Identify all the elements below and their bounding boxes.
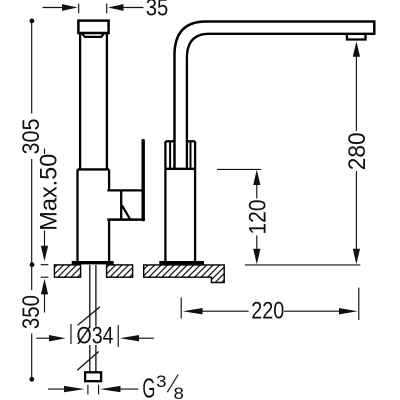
- body step: [78, 168, 110, 170]
- svg-text:120: 120: [244, 200, 271, 235]
- svg-text:G: G: [142, 372, 155, 400]
- spout aerator: [347, 34, 366, 40]
- G3/8 connector: [85, 372, 101, 381]
- dimension 35: [43, 0, 169, 22]
- faucet body cap: [78, 21, 108, 33]
- dimension Max.50: [36, 149, 63, 313]
- right base plate: [159, 261, 204, 264]
- svg-text:350: 350: [18, 295, 45, 329]
- svg-text:3: 3: [156, 373, 166, 391]
- svg-text:35: 35: [146, 0, 169, 22]
- deck right section: [144, 265, 225, 283]
- svg-text:305: 305: [18, 119, 45, 155]
- faucet upper body: [80, 33, 107, 169]
- spout tube inner: [187, 34, 374, 169]
- handle base: [107, 218, 145, 221]
- faucet lower body: [78, 169, 110, 261]
- supply pipe: [90, 265, 96, 372]
- handle arm: [107, 189, 143, 191]
- spout tube end: [373, 20, 376, 35]
- svg-text:Ø34: Ø34: [77, 322, 114, 349]
- handle lever: [141, 141, 144, 220]
- spout tube outer: [175, 22, 375, 169]
- dimension 120: [217, 169, 360, 265]
- dimension diameter 34: [36, 322, 154, 349]
- spout collar: [165, 141, 195, 169]
- pipe break slashes: [77, 307, 100, 370]
- dimension 350: [18, 267, 45, 382]
- dimension 220: [181, 288, 359, 325]
- dimension 305: [18, 19, 45, 268]
- left base plate: [72, 261, 114, 264]
- dimension G3/8: [48, 372, 184, 400]
- svg-text:8: 8: [174, 385, 184, 400]
- svg-text:280: 280: [344, 132, 371, 170]
- svg-text:Max.50: Max.50: [36, 154, 63, 231]
- deck left section: [54, 265, 132, 277]
- handle pivot: [121, 191, 130, 219]
- svg-text:220: 220: [251, 298, 284, 325]
- spout pillar: [165, 141, 195, 261]
- aerator nozzle: [82, 33, 105, 37]
- dimension 280: [344, 41, 371, 264]
